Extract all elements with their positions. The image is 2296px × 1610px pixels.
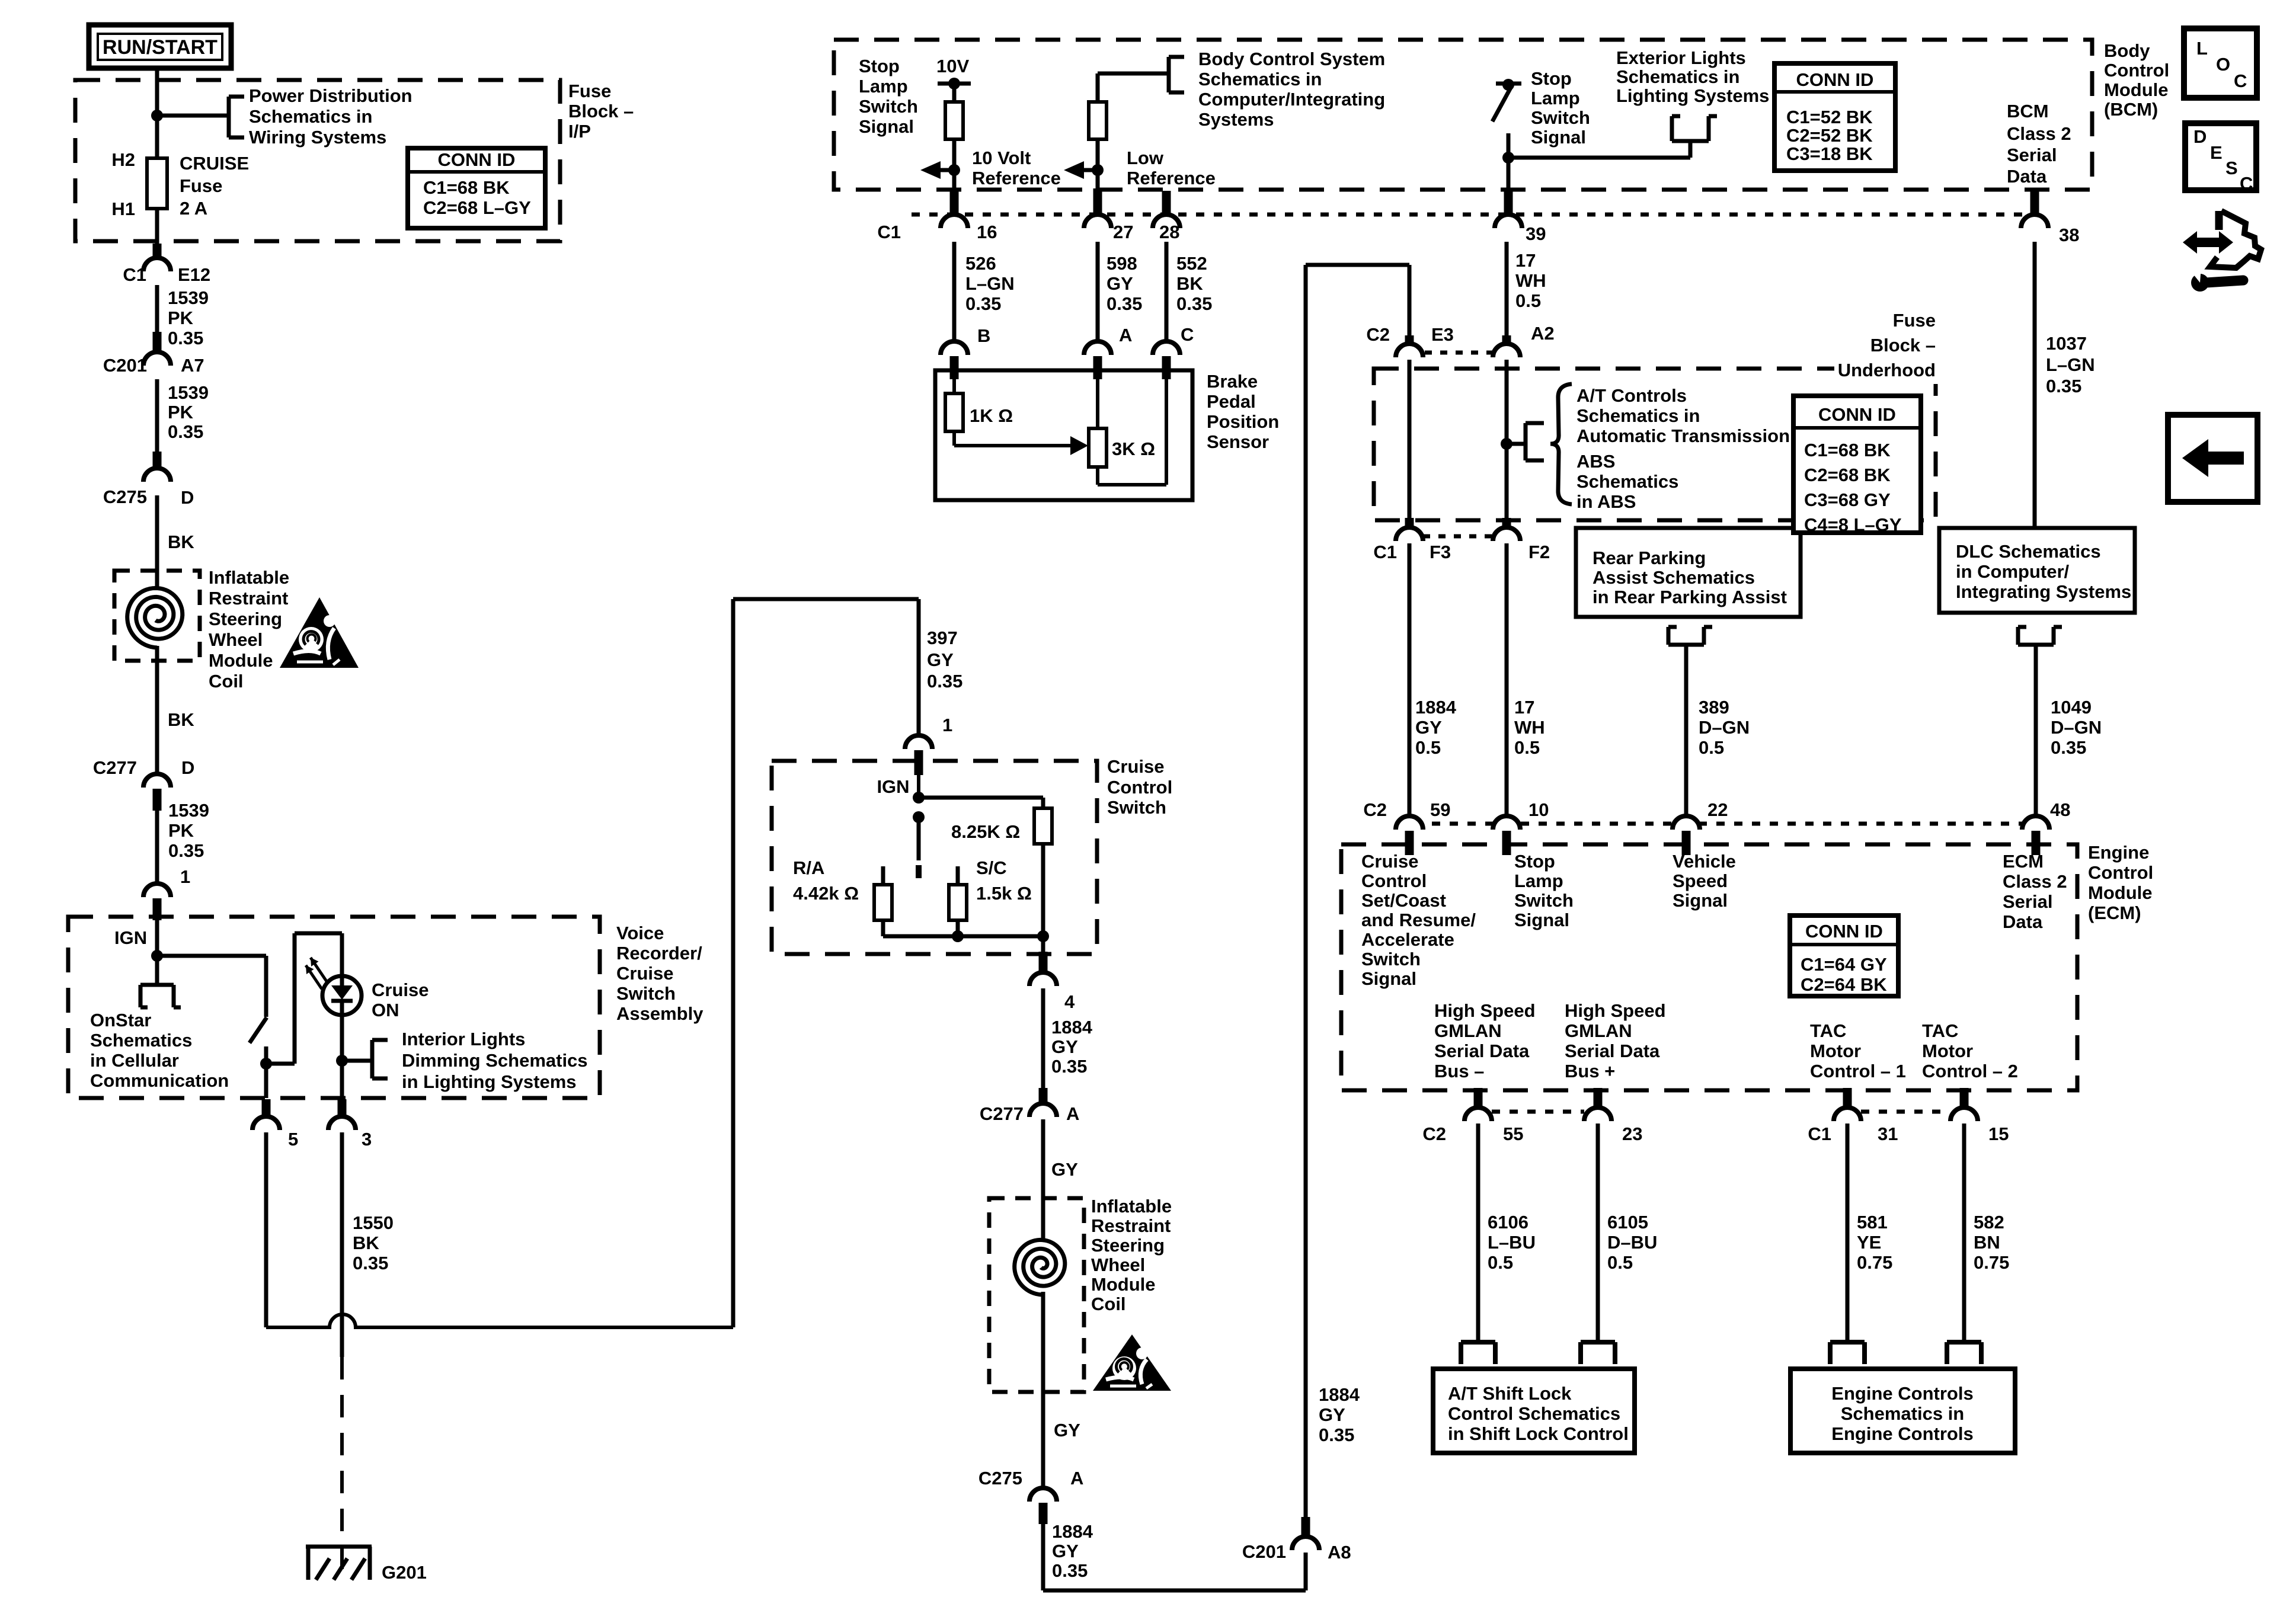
svg-text:Assembly: Assembly [616, 1003, 703, 1024]
svg-text:Data: Data [2003, 911, 2043, 932]
svg-text:Switch: Switch [1107, 797, 1166, 818]
svg-text:1884: 1884 [1051, 1017, 1093, 1038]
svg-text:27: 27 [1113, 222, 1133, 242]
svg-text:Fuse: Fuse [180, 175, 222, 196]
svg-text:I/P: I/P [568, 121, 591, 142]
svg-text:GY: GY [1107, 273, 1133, 294]
svg-text:598: 598 [1107, 253, 1137, 274]
svg-text:Sensor: Sensor [1207, 431, 1269, 452]
svg-text:Schematics in: Schematics in [1841, 1403, 1964, 1424]
svg-text:C2: C2 [1363, 799, 1387, 820]
svg-text:Wiring Systems: Wiring Systems [249, 127, 386, 148]
svg-text:Block –: Block – [1870, 335, 1936, 356]
svg-text:581: 581 [1857, 1212, 1888, 1233]
svg-text:GMLAN: GMLAN [1434, 1020, 1502, 1041]
svg-text:H2: H2 [111, 149, 135, 170]
svg-text:0.5: 0.5 [1699, 737, 1724, 758]
svg-text:in Shift Lock Control: in Shift Lock Control [1448, 1423, 1629, 1444]
svg-text:55: 55 [1503, 1124, 1523, 1144]
svg-text:Brake: Brake [1207, 371, 1258, 392]
svg-text:0.35: 0.35 [2046, 376, 2081, 396]
svg-text:Speed: Speed [1673, 870, 1728, 891]
svg-text:C2=68 L–GY: C2=68 L–GY [423, 197, 531, 218]
svg-text:C3=18 BK: C3=18 BK [1786, 143, 1873, 164]
svg-text:Serial Data: Serial Data [1565, 1041, 1660, 1061]
svg-text:Engine Controls: Engine Controls [1831, 1423, 1973, 1444]
svg-text:Module: Module [1091, 1274, 1156, 1295]
svg-text:Control: Control [1107, 777, 1172, 798]
svg-text:A2: A2 [1531, 323, 1555, 344]
svg-text:L–GN: L–GN [965, 273, 1015, 294]
svg-text:IGN: IGN [114, 927, 147, 948]
svg-text:CONN ID: CONN ID [438, 149, 516, 170]
svg-text:Switch: Switch [859, 96, 918, 117]
svg-text:R/A: R/A [793, 857, 824, 878]
svg-text:GY: GY [1319, 1404, 1345, 1425]
svg-text:GY: GY [1415, 717, 1442, 738]
svg-text:YE: YE [1857, 1232, 1881, 1253]
svg-text:Block –: Block – [568, 101, 634, 121]
svg-text:in Cellular: in Cellular [90, 1050, 179, 1071]
svg-text:C277: C277 [980, 1103, 1024, 1124]
svg-text:C1: C1 [877, 222, 901, 242]
svg-text:C275: C275 [103, 486, 147, 507]
svg-text:Systems: Systems [1198, 109, 1274, 130]
svg-text:1884: 1884 [1052, 1521, 1093, 1542]
svg-text:BCM: BCM [2007, 101, 2049, 121]
svg-text:Reference: Reference [1127, 168, 1216, 188]
svg-text:C1=64 GY: C1=64 GY [1801, 954, 1887, 975]
svg-text:Switch: Switch [1361, 949, 1421, 969]
svg-text:D: D [181, 487, 194, 508]
svg-text:Vehicle: Vehicle [1673, 851, 1736, 872]
svg-text:C2: C2 [1422, 1124, 1446, 1144]
svg-text:in Lighting Systems: in Lighting Systems [402, 1071, 577, 1092]
svg-text:C277: C277 [93, 757, 137, 778]
svg-text:GMLAN: GMLAN [1565, 1020, 1632, 1041]
svg-text:Signal: Signal [1361, 968, 1416, 989]
svg-text:Rear Parking: Rear Parking [1593, 548, 1706, 568]
svg-text:Wheel: Wheel [1091, 1254, 1145, 1275]
svg-text:BK: BK [168, 532, 194, 552]
svg-text:Cruise: Cruise [1361, 851, 1418, 872]
svg-text:10 Volt: 10 Volt [972, 148, 1031, 168]
svg-text:High Speed: High Speed [1565, 1000, 1666, 1021]
svg-text:Restraint: Restraint [209, 588, 288, 609]
svg-text:CRUISE: CRUISE [180, 153, 249, 174]
svg-text:4: 4 [1064, 991, 1075, 1012]
svg-text:Set/Coast: Set/Coast [1361, 890, 1446, 911]
svg-text:0.5: 0.5 [1515, 290, 1541, 311]
svg-text:A/T Shift Lock: A/T Shift Lock [1448, 1383, 1572, 1404]
svg-text:1K Ω: 1K Ω [970, 405, 1013, 426]
svg-text:1037: 1037 [2046, 333, 2087, 354]
svg-text:Control: Control [2104, 60, 2169, 81]
svg-text:F2: F2 [1528, 542, 1550, 562]
svg-text:Automatic Transmission: Automatic Transmission [1576, 425, 1790, 446]
svg-text:Recorder/: Recorder/ [616, 943, 702, 964]
svg-text:Communication: Communication [90, 1070, 229, 1091]
svg-text:48: 48 [2050, 799, 2070, 820]
svg-text:D: D [181, 757, 194, 778]
svg-text:TAC: TAC [1922, 1020, 1958, 1041]
svg-text:0.5: 0.5 [1415, 737, 1441, 758]
svg-text:E3: E3 [1431, 324, 1454, 345]
svg-text:Signal: Signal [1514, 910, 1569, 930]
svg-text:Module: Module [2104, 79, 2169, 100]
svg-text:31: 31 [1878, 1124, 1898, 1144]
svg-text:6105: 6105 [1607, 1212, 1648, 1233]
svg-text:Serial: Serial [2003, 891, 2052, 912]
svg-text:RUN/START: RUN/START [103, 36, 218, 59]
svg-text:A/T Controls: A/T Controls [1576, 385, 1687, 406]
svg-text:C1: C1 [123, 264, 146, 285]
svg-text:Stop: Stop [1531, 68, 1572, 89]
svg-text:1: 1 [942, 715, 952, 735]
svg-text:BK: BK [168, 709, 194, 730]
svg-text:0.35: 0.35 [927, 671, 962, 692]
svg-text:GY: GY [927, 649, 954, 670]
svg-text:Bus –: Bus – [1434, 1061, 1484, 1081]
svg-text:C: C [2234, 71, 2247, 91]
svg-text:Control – 1: Control – 1 [1810, 1061, 1906, 1081]
svg-text:Reference: Reference [972, 168, 1061, 188]
svg-text:GY: GY [1051, 1159, 1078, 1180]
svg-text:Signal: Signal [859, 116, 914, 137]
svg-text:0.35: 0.35 [353, 1253, 388, 1273]
svg-text:Control Schematics: Control Schematics [1448, 1403, 1620, 1424]
svg-text:Serial Data: Serial Data [1434, 1041, 1530, 1061]
svg-text:Control – 2: Control – 2 [1922, 1061, 2018, 1081]
svg-text:ECM: ECM [2003, 851, 2044, 872]
svg-text:C1=68 BK: C1=68 BK [423, 177, 510, 198]
svg-text:Engine: Engine [2088, 842, 2149, 863]
svg-text:C1: C1 [1808, 1124, 1831, 1144]
svg-text:Data: Data [2007, 166, 2047, 187]
svg-text:4.42k Ω: 4.42k Ω [793, 883, 859, 904]
svg-text:0.35: 0.35 [168, 328, 203, 348]
svg-text:Engine Controls: Engine Controls [1831, 1383, 1973, 1404]
svg-text:Dimming Schematics: Dimming Schematics [402, 1050, 588, 1071]
svg-text:Module: Module [209, 650, 273, 671]
svg-text:(ECM): (ECM) [2088, 902, 2141, 923]
svg-text:ON: ON [372, 1000, 399, 1020]
svg-text:389: 389 [1699, 697, 1729, 718]
svg-text:BK: BK [353, 1233, 379, 1253]
svg-text:GY: GY [1054, 1420, 1080, 1441]
svg-text:E: E [2210, 142, 2223, 163]
svg-text:Signal: Signal [1673, 890, 1728, 911]
svg-text:C4=8 L–GY: C4=8 L–GY [1804, 514, 1902, 535]
svg-text:C: C [1181, 324, 1194, 345]
svg-text:Lighting Systems: Lighting Systems [1616, 85, 1769, 106]
svg-text:C2=52 BK: C2=52 BK [1786, 125, 1873, 146]
svg-text:Low: Low [1127, 148, 1164, 168]
svg-text:0.35: 0.35 [1176, 293, 1212, 314]
svg-text:Schematics: Schematics [1576, 471, 1678, 492]
svg-text:G201: G201 [382, 1562, 427, 1583]
svg-text:BK: BK [1176, 273, 1203, 294]
svg-text:22: 22 [1707, 799, 1728, 820]
svg-text:59: 59 [1430, 799, 1450, 820]
svg-text:17: 17 [1514, 697, 1534, 718]
svg-text:L–GN: L–GN [2046, 354, 2095, 375]
svg-text:0.35: 0.35 [1107, 293, 1142, 314]
svg-text:Signal: Signal [1531, 127, 1586, 148]
svg-text:L–BU: L–BU [1488, 1232, 1536, 1253]
svg-text:Underhood: Underhood [1838, 360, 1936, 380]
svg-text:A: A [1066, 1103, 1079, 1124]
svg-text:PK: PK [168, 820, 194, 841]
svg-text:28: 28 [1159, 222, 1179, 242]
svg-text:38: 38 [2059, 225, 2079, 245]
svg-text:3: 3 [362, 1129, 372, 1150]
svg-text:OnStar: OnStar [90, 1010, 151, 1030]
svg-text:Schematics in: Schematics in [1576, 405, 1700, 426]
svg-text:WH: WH [1514, 717, 1545, 738]
svg-text:0.75: 0.75 [1857, 1252, 1892, 1273]
svg-text:Interior Lights: Interior Lights [402, 1029, 525, 1049]
svg-text:Motor: Motor [1922, 1041, 1973, 1061]
svg-text:Stop: Stop [859, 56, 900, 76]
svg-text:Steering: Steering [209, 609, 282, 629]
svg-text:CONN ID: CONN ID [1796, 69, 1874, 90]
svg-text:C201: C201 [103, 355, 147, 376]
svg-text:L: L [2196, 38, 2208, 59]
svg-text:Switch: Switch [1531, 107, 1590, 128]
svg-text:PK: PK [168, 402, 194, 422]
svg-text:0.35: 0.35 [168, 840, 204, 861]
svg-text:0.5: 0.5 [1514, 737, 1540, 758]
svg-text:Body Control System: Body Control System [1198, 49, 1385, 69]
svg-text:Assist Schematics: Assist Schematics [1593, 567, 1755, 588]
svg-text:Control: Control [1361, 870, 1427, 891]
svg-text:0.35: 0.35 [168, 421, 203, 442]
svg-text:in Computer/: in Computer/ [1956, 561, 2070, 582]
svg-text:Inflatable: Inflatable [1091, 1196, 1172, 1217]
svg-text:1049: 1049 [2051, 697, 2092, 718]
svg-text:1884: 1884 [1415, 697, 1457, 718]
svg-text:Bus +: Bus + [1565, 1061, 1615, 1081]
svg-text:Lamp: Lamp [1531, 88, 1580, 108]
svg-text:Computer/Integrating: Computer/Integrating [1198, 89, 1385, 110]
svg-text:2 A: 2 A [180, 198, 207, 219]
svg-text:Coil: Coil [209, 671, 244, 692]
svg-text:O: O [2216, 54, 2230, 75]
svg-text:0.35: 0.35 [1051, 1056, 1087, 1077]
svg-text:BN: BN [1974, 1232, 2000, 1253]
svg-text:A: A [1119, 325, 1132, 345]
svg-text:CONN ID: CONN ID [1805, 921, 1883, 942]
svg-text:WH: WH [1515, 270, 1546, 291]
svg-text:1539: 1539 [168, 382, 209, 403]
svg-text:Cruise: Cruise [616, 963, 673, 984]
svg-text:C2: C2 [1366, 324, 1390, 345]
svg-text:Module: Module [2088, 882, 2153, 903]
svg-text:Lamp: Lamp [859, 76, 908, 97]
svg-text:in ABS: in ABS [1576, 491, 1636, 512]
svg-text:Schematics: Schematics [90, 1030, 192, 1051]
svg-text:C2=68 BK: C2=68 BK [1804, 465, 1891, 485]
svg-text:and Resume/: and Resume/ [1361, 910, 1476, 930]
svg-text:E12: E12 [178, 264, 210, 285]
svg-text:526: 526 [965, 253, 996, 274]
svg-text:17: 17 [1515, 250, 1536, 271]
svg-text:GY: GY [1051, 1036, 1078, 1057]
svg-text:Voice: Voice [616, 923, 664, 943]
svg-text:Fuse: Fuse [1893, 310, 1936, 331]
svg-text:TAC: TAC [1810, 1020, 1846, 1041]
svg-text:C1=52 BK: C1=52 BK [1786, 107, 1873, 127]
svg-text:5: 5 [288, 1129, 298, 1150]
svg-text:D–GN: D–GN [2051, 717, 2102, 738]
svg-text:1539: 1539 [168, 287, 209, 308]
svg-text:Serial: Serial [2007, 145, 2057, 165]
svg-text:Lamp: Lamp [1514, 870, 1563, 891]
svg-text:552: 552 [1176, 253, 1207, 274]
svg-text:Schematics in: Schematics in [1198, 69, 1322, 89]
svg-text:DLC Schematics: DLC Schematics [1956, 541, 2101, 562]
svg-text:Pedal: Pedal [1207, 391, 1256, 412]
svg-text:10: 10 [1528, 799, 1549, 820]
svg-text:Schematics in: Schematics in [1616, 66, 1739, 87]
svg-text:39: 39 [1526, 223, 1546, 244]
svg-text:ABS: ABS [1576, 451, 1615, 472]
svg-text:0.75: 0.75 [1974, 1252, 2009, 1273]
svg-text:B: B [977, 325, 990, 346]
svg-text:Motor: Motor [1810, 1041, 1861, 1061]
svg-text:6106: 6106 [1488, 1212, 1528, 1233]
svg-text:in Rear Parking Assist: in Rear Parking Assist [1593, 587, 1787, 607]
svg-text:(BCM): (BCM) [2104, 99, 2158, 120]
svg-text:C1=68 BK: C1=68 BK [1804, 440, 1891, 460]
svg-text:Inflatable: Inflatable [209, 567, 289, 588]
svg-text:A: A [1070, 1468, 1083, 1489]
svg-text:Position: Position [1207, 411, 1279, 432]
svg-text:GY: GY [1052, 1541, 1079, 1561]
svg-text:Power Distribution: Power Distribution [249, 85, 412, 106]
svg-text:Coil: Coil [1091, 1294, 1126, 1314]
svg-text:Integrating Systems: Integrating Systems [1956, 581, 2131, 602]
svg-text:0.35: 0.35 [965, 293, 1001, 314]
svg-text:Exterior Lights: Exterior Lights [1616, 47, 1746, 68]
svg-text:582: 582 [1974, 1212, 2004, 1233]
svg-text:C275: C275 [978, 1468, 1022, 1489]
svg-text:IGN: IGN [877, 776, 909, 797]
svg-text:0.35: 0.35 [1052, 1560, 1088, 1581]
svg-text:Switch: Switch [1514, 890, 1574, 911]
svg-text:C201: C201 [1242, 1541, 1286, 1562]
svg-text:23: 23 [1622, 1124, 1642, 1144]
svg-text:Switch: Switch [616, 983, 676, 1004]
svg-text:Schematics in: Schematics in [249, 106, 372, 127]
svg-text:15: 15 [1988, 1124, 2009, 1144]
svg-text:D–BU: D–BU [1607, 1232, 1657, 1253]
svg-text:PK: PK [168, 308, 194, 328]
svg-text:0.35: 0.35 [2051, 737, 2086, 758]
svg-text:Body: Body [2104, 40, 2150, 61]
svg-text:Restraint: Restraint [1091, 1215, 1171, 1236]
svg-text:0.5: 0.5 [1607, 1252, 1633, 1273]
svg-text:CONN ID: CONN ID [1818, 404, 1896, 425]
svg-text:3K Ω: 3K Ω [1112, 438, 1155, 459]
svg-text:Steering: Steering [1091, 1235, 1165, 1256]
svg-text:397: 397 [927, 628, 958, 648]
svg-text:Wheel: Wheel [209, 629, 263, 650]
svg-text:Control: Control [2088, 862, 2153, 883]
svg-text:C2=64 BK: C2=64 BK [1801, 974, 1887, 995]
svg-text:0.5: 0.5 [1488, 1252, 1513, 1273]
svg-text:C: C [2240, 173, 2253, 194]
svg-text:S: S [2225, 158, 2238, 178]
svg-text:8.25K Ω: 8.25K Ω [951, 821, 1020, 842]
svg-text:Cruise: Cruise [1107, 756, 1164, 777]
svg-text:1539: 1539 [168, 800, 209, 821]
svg-text:H1: H1 [111, 199, 135, 219]
svg-text:1884: 1884 [1319, 1384, 1360, 1405]
svg-text:1: 1 [180, 866, 190, 887]
svg-text:Accelerate: Accelerate [1361, 929, 1454, 950]
svg-text:16: 16 [977, 222, 997, 242]
svg-text:1.5k Ω: 1.5k Ω [976, 883, 1032, 904]
svg-text:Stop: Stop [1514, 851, 1555, 872]
svg-text:A7: A7 [181, 355, 204, 376]
svg-text:Fuse: Fuse [568, 81, 611, 101]
svg-text:S/C: S/C [976, 857, 1007, 878]
svg-text:C1: C1 [1373, 542, 1397, 562]
svg-text:D: D [2193, 126, 2207, 147]
svg-text:10V: 10V [936, 56, 969, 76]
svg-text:A8: A8 [1328, 1542, 1351, 1563]
svg-text:Cruise: Cruise [372, 980, 428, 1000]
svg-text:0.35: 0.35 [1319, 1425, 1354, 1445]
svg-text:High Speed: High Speed [1434, 1000, 1536, 1021]
svg-text:1550: 1550 [353, 1212, 394, 1233]
svg-text:D–GN: D–GN [1699, 717, 1750, 738]
svg-text:F3: F3 [1430, 542, 1451, 562]
svg-text:Class 2: Class 2 [2003, 871, 2067, 892]
svg-text:Class 2: Class 2 [2007, 123, 2071, 144]
svg-text:C3=68 GY: C3=68 GY [1804, 489, 1891, 510]
